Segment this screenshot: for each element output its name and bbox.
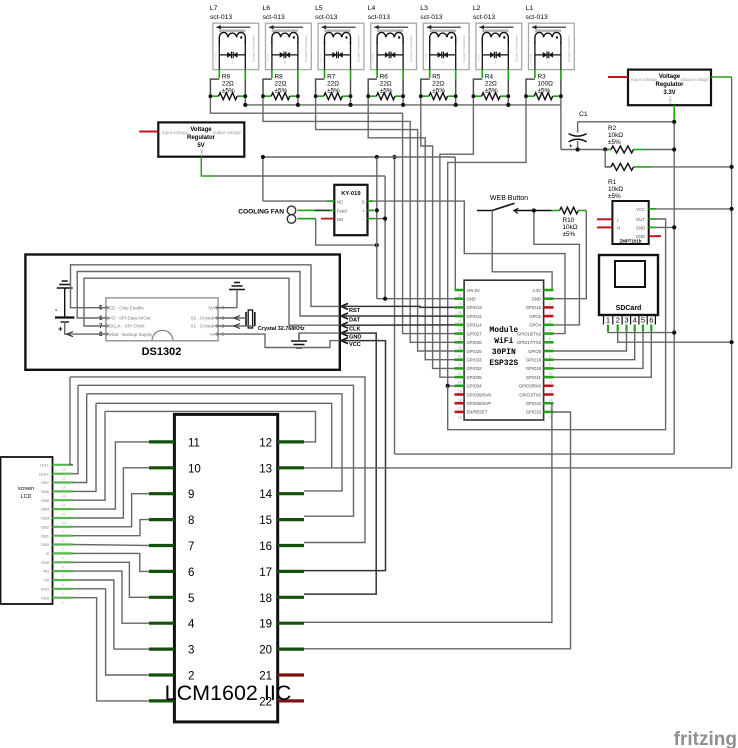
pin DAT [341, 313, 348, 319]
svg-text:Current Transformer: Current Transformer [567, 35, 571, 62]
wire ZMPT L red [597, 218, 612, 220]
pin LCM 9 [149, 492, 174, 495]
svg-text:Regulator: Regulator [187, 135, 216, 141]
svg-text:17: 17 [259, 567, 272, 579]
pin LCM 4 [149, 622, 174, 625]
pin LCM 8 [149, 518, 174, 521]
svg-text:GPIO32: GPIO32 [467, 366, 483, 371]
voltage regulator 3.3V [628, 70, 711, 106]
svg-text:10: 10 [188, 463, 201, 475]
wire node under R7 right [350, 96, 352, 105]
wire CT L7 pin1 to R node [218, 70, 220, 78]
svg-text:22Ω: 22Ω [485, 81, 497, 88]
pin SD 4 [634, 325, 636, 332]
RTC module DS1302 outer box [25, 255, 339, 370]
svg-text:sct-013: sct-013 [213, 53, 217, 62]
svg-text:DB3: DB3 [41, 516, 50, 521]
svg-text:2: 2 [616, 316, 620, 325]
resistor R1 10k [605, 163, 731, 200]
svg-text:R6: R6 [380, 74, 389, 81]
resistor R4 22Ω [473, 74, 508, 100]
pin LCM 5 [149, 596, 174, 599]
node bias-C1 [576, 147, 580, 151]
voltage regulator 5V [158, 122, 244, 156]
pin right GPO2 [544, 315, 554, 318]
svg-text:30PIN: 30PIN [492, 348, 516, 357]
svg-text:7: 7 [549, 346, 551, 350]
svg-text:DB5: DB5 [41, 498, 50, 503]
svg-text:22: 22 [458, 363, 462, 367]
svg-text:5: 5 [641, 316, 645, 325]
svg-text:10kΩ: 10kΩ [563, 224, 578, 231]
svg-text:L1: L1 [526, 5, 534, 12]
svg-text:±5%: ±5% [563, 231, 576, 238]
svg-text:22Ω: 22Ω [275, 81, 287, 88]
wire R9 signal to ESP32 [210, 96, 454, 333]
ground symbol bottom right [291, 341, 307, 348]
wire CT L1 pin2 to R node [560, 70, 562, 80]
pin right GPIO5 [544, 350, 554, 353]
svg-text:2: 2 [547, 61, 549, 65]
svg-text:OUT: OUT [636, 217, 645, 222]
wire LED+ to LCM pin15 [78, 385, 354, 516]
capacitor C1 [569, 111, 588, 150]
svg-text:GPIO39/SVN: GPIO39/SVN [467, 392, 492, 397]
node junction [375, 155, 379, 159]
pin LCM 16 [278, 544, 304, 547]
svg-text:DB7: DB7 [41, 480, 50, 485]
svg-text:13: 13 [549, 398, 553, 402]
svg-text:COOLING FAN: COOLING FAN [238, 208, 284, 215]
battery [55, 307, 75, 334]
svg-text:Current Transformer: Current Transformer [304, 35, 308, 62]
wire node under R4 right [507, 96, 509, 105]
svg-text:Crystal 32.768KHz: Crystal 32.768KHz [258, 326, 305, 332]
wire KY - to GND rail [368, 218, 375, 220]
pin left GPIO12 [455, 315, 465, 318]
svg-text:R/W: R/W [41, 560, 49, 565]
svg-text:NC: NC [337, 199, 343, 204]
svg-text:sct-013: sct-013 [371, 53, 375, 62]
svg-text:output voltage: output voltage [680, 77, 709, 82]
svg-text:28: 28 [458, 311, 462, 315]
svg-text:11: 11 [188, 437, 200, 449]
wire KY + rail [368, 209, 375, 211]
pin left GPIO14 [455, 323, 465, 326]
wire LCD VSS to LCM pin1 [73, 598, 149, 701]
svg-text:fritzing: fritzing [674, 729, 737, 748]
pin left GPIO27 [455, 332, 465, 335]
wire 5V output rail [201, 157, 213, 176]
svg-text:25: 25 [458, 337, 462, 341]
wire gnd symbol to GND arrow [299, 333, 340, 341]
wire CT L4 pin1 to R node [376, 70, 378, 78]
svg-text:sct-013: sct-013 [526, 14, 549, 21]
svg-text:RS: RS [43, 569, 49, 574]
svg-text:18: 18 [458, 398, 462, 402]
svg-text:3: 3 [222, 316, 225, 322]
node bus-R4 [506, 103, 510, 107]
svg-text:LED-: LED- [40, 462, 50, 467]
pin LCM 19 [278, 622, 304, 625]
wire CT L4 pin2 to R node [402, 70, 404, 80]
svg-text:11: 11 [62, 512, 65, 516]
SDCard module [599, 255, 658, 315]
svg-text:GPIO12: GPIO12 [467, 314, 483, 319]
node R8 left [261, 94, 265, 98]
voltage sensor ZMPT101b [612, 201, 648, 244]
svg-text:input voltage: input voltage [631, 77, 657, 82]
svg-text:GPIO34: GPIO34 [467, 384, 483, 389]
svg-text:13: 13 [259, 463, 272, 475]
pin left GPIO36/SVP [455, 402, 465, 405]
svg-text:21: 21 [458, 372, 462, 376]
svg-text:DB0: DB0 [41, 542, 50, 547]
svg-text:GPIO21: GPIO21 [526, 375, 542, 380]
svg-text:22Ω: 22Ω [327, 81, 339, 88]
wire CLK to GPIO14 [341, 324, 455, 326]
svg-text:VIN 5V: VIN 5V [467, 288, 480, 293]
wire CT L3 pin2 to R node [455, 70, 457, 80]
pin LCM 20 [278, 647, 304, 650]
pin SD 2 [617, 325, 619, 332]
svg-text:9: 9 [549, 363, 551, 367]
wire 0V to ground [218, 307, 237, 309]
svg-text:GPIO15: GPIO15 [526, 305, 542, 310]
wire VCC arrow to LCM pin17 [304, 341, 386, 571]
wire DAT to GPIO12 [341, 315, 455, 317]
wire node under R8 right [297, 96, 299, 105]
svg-text:23: 23 [458, 355, 462, 359]
pin right GPIO16/TX2 [544, 332, 554, 335]
wire R5 signal to ESP32 [421, 96, 455, 368]
pin left GPIO32 [455, 367, 465, 370]
wire button left to 3.3V pin [492, 211, 553, 291]
node bus-R5 [454, 103, 458, 107]
svg-text:±5%: ±5% [608, 193, 621, 200]
wire X1 to crystal [218, 325, 255, 327]
svg-text:12: 12 [259, 437, 272, 449]
svg-text:10kΩ: 10kΩ [608, 132, 623, 139]
svg-text:GPIO26: GPIO26 [467, 340, 483, 345]
svg-text:sct-013: sct-013 [319, 53, 323, 62]
transformer L2 sct-013 [473, 5, 522, 70]
svg-text:+: + [569, 144, 573, 150]
pin left EN/RESET [455, 411, 465, 414]
node R8 right [296, 94, 300, 98]
svg-text:X2 - Crystal: X2 - Crystal [190, 316, 214, 321]
wire 3.3V input (red) [608, 76, 628, 78]
DS1302 IC box [106, 298, 218, 341]
svg-text:VCC: VCC [349, 342, 361, 348]
pin right GND [544, 297, 554, 300]
svg-text:29: 29 [458, 302, 462, 306]
wire bus to C1/R2 bias node [560, 96, 562, 149]
pin LCM 1 [149, 699, 174, 702]
pin LCM 14 [278, 492, 304, 495]
svg-text:L3: L3 [420, 5, 428, 12]
svg-text:sct-013: sct-013 [473, 14, 496, 21]
pin SD 1 [607, 325, 609, 332]
wire CT L2 pin2 to R node [507, 70, 509, 80]
svg-text:5: 5 [549, 328, 551, 332]
resistor R5 22Ω [421, 74, 456, 100]
svg-text:10kΩ: 10kΩ [608, 186, 623, 193]
pin left GPIO13 [455, 306, 465, 309]
wire LCD DB5 riser [73, 411, 105, 500]
wire node under R6 right [402, 96, 404, 105]
svg-text:sct-013: sct-013 [476, 53, 480, 62]
wire common CT bus [244, 96, 246, 105]
wire relay rail to VIN [454, 157, 457, 290]
resistor R9 22Ω [210, 74, 245, 100]
svg-text:2: 2 [494, 61, 496, 65]
wire R7 signal to ESP32 [316, 96, 455, 351]
svg-text:18: 18 [259, 593, 272, 605]
svg-text:22Ω: 22Ω [222, 81, 234, 88]
wire X2 to crystal [218, 317, 246, 319]
svg-text:GPIO1/TX0: GPIO1/TX0 [519, 392, 541, 397]
svg-text:GPIO25: GPIO25 [467, 349, 483, 354]
svg-text:GPIO18: GPIO18 [526, 358, 542, 363]
svg-text:5: 5 [188, 593, 194, 605]
node rail-bias [392, 155, 396, 159]
svg-text:12: 12 [549, 389, 553, 393]
DS1302 IC pin arrows [106, 306, 110, 310]
node GPIO34 [446, 384, 450, 388]
pin left VIN 5V [455, 289, 465, 292]
node railV1-GND [672, 225, 676, 229]
wire DB5 to LCM pin12 [105, 411, 316, 442]
svg-text:1: 1 [549, 294, 551, 298]
wire LCD RS to LCM pin4 [73, 571, 149, 623]
svg-text:22Ω: 22Ω [432, 81, 444, 88]
svg-text:26: 26 [458, 328, 462, 332]
svg-text:Current Transformer: Current Transformer [357, 35, 361, 62]
node bus-R8 [296, 103, 300, 107]
node bus-R9 [243, 103, 247, 107]
wire ZMPT GND [649, 226, 656, 228]
svg-text:C1: C1 [579, 111, 588, 118]
svg-text:3: 3 [549, 311, 551, 315]
svg-text:GPIO35: GPIO35 [467, 375, 483, 380]
svg-text:S: S [362, 199, 365, 204]
pushbutton WEB Button [477, 195, 534, 213]
resistor R2 10k [605, 125, 674, 153]
svg-text:DB4: DB4 [41, 507, 50, 512]
svg-text:19: 19 [458, 389, 462, 393]
svg-text:input voltage: input voltage [162, 130, 188, 135]
svg-text:100Ω: 100Ω [538, 81, 554, 88]
svg-text:GPIO13: GPIO13 [467, 305, 483, 310]
node R2-left [603, 147, 607, 151]
svg-text:4: 4 [549, 320, 551, 324]
pin left GPIO34 [455, 384, 465, 387]
svg-text:sct-013: sct-013 [368, 14, 391, 21]
wire fan bottom path [298, 218, 316, 220]
svg-text:R3: R3 [538, 74, 547, 81]
svg-text:24: 24 [458, 346, 462, 350]
pin right GPIO15 [544, 306, 554, 309]
wire CT L1 pin1 to R node [534, 70, 536, 78]
pin GND [341, 330, 348, 336]
wire button mid to GPO4 [534, 211, 580, 325]
microcontroller module ESP32S 30PIN [464, 280, 543, 420]
wire SD1 to rail V1 [608, 332, 674, 333]
node R3 left [524, 94, 528, 98]
node junction [672, 331, 676, 335]
cooling fan connector [238, 206, 296, 223]
svg-text:VDD: VDD [41, 586, 50, 591]
wire LED- to LCM pin16 [70, 377, 365, 543]
svg-text:1: 1 [222, 332, 225, 338]
svg-text:+: + [58, 325, 63, 334]
wire node under R9 right [244, 96, 246, 105]
svg-text:sct-013: sct-013 [315, 14, 338, 21]
wire 3.3V output to right rail [711, 76, 732, 78]
node R9 left [209, 94, 213, 98]
svg-text:X1 - Crystal: X1 - Crystal [190, 324, 214, 329]
node R5 left [419, 94, 423, 98]
svg-text:16: 16 [62, 468, 66, 472]
node bus-R6 [401, 103, 405, 107]
svg-text:DB1: DB1 [41, 533, 50, 538]
transformer L3 sct-013 [420, 5, 469, 70]
pin LCM 6 [149, 570, 174, 573]
ESP32 center label [489, 326, 518, 368]
svg-text:output voltage: output voltage [213, 130, 242, 135]
pin right GPO4 [544, 323, 554, 326]
svg-text:NO: NO [337, 217, 344, 222]
svg-text:11: 11 [549, 381, 553, 385]
relay module KY-019 [334, 185, 367, 235]
wire ZMPT GND2 red stub [649, 235, 661, 237]
wire LCD DB3 to LCM pin10 [73, 468, 149, 518]
node GND-row [383, 297, 387, 301]
svg-text:3: 3 [624, 316, 628, 325]
node rail-VCC [730, 207, 734, 211]
node button-R10 [532, 208, 536, 212]
wire LCD DB7 riser [73, 394, 87, 483]
svg-text:screen: screen [18, 486, 34, 492]
wire ZMPT N red [597, 226, 612, 228]
svg-text:L4: L4 [368, 5, 376, 12]
svg-text:13: 13 [62, 494, 66, 498]
pin RST [341, 303, 348, 309]
wire KY Feed (fan top) [298, 209, 335, 211]
svg-text:sct-013: sct-013 [424, 53, 428, 62]
svg-text:GPIO19: GPIO19 [526, 366, 542, 371]
wire R6 signal to ESP32 [368, 96, 454, 360]
pin LCM 11 [149, 440, 174, 443]
pin LCM 22 [278, 699, 304, 702]
svg-text:±5%: ±5% [608, 139, 621, 146]
svg-text:3.3V: 3.3V [663, 90, 675, 96]
LCD driver LCM1602 IIC [174, 414, 277, 722]
svg-text:R9: R9 [222, 74, 231, 81]
pin LCM 7 [149, 544, 174, 547]
svg-text:9: 9 [188, 489, 194, 501]
svg-text:4: 4 [188, 619, 195, 631]
pin LCM 12 [278, 440, 304, 443]
svg-text:GND: GND [349, 335, 361, 341]
svg-text:10: 10 [62, 521, 66, 525]
ground symbol near 0V [229, 283, 245, 290]
svg-text:6: 6 [649, 316, 653, 325]
wire LCM pin13 long to rail V2 [304, 467, 732, 469]
svg-text:R10: R10 [563, 217, 575, 224]
pin right GPIO18 [544, 358, 554, 361]
svg-text:SCLK - SPI Clock: SCLK - SPI Clock [109, 324, 145, 329]
svg-text:+v: +v [209, 332, 215, 337]
resistor R6 22Ω [368, 74, 403, 100]
wire SD3 to GPIO5 [554, 332, 627, 352]
svg-text:16: 16 [259, 541, 272, 553]
svg-text:GPIO16/TX2: GPIO16/TX2 [517, 331, 542, 336]
svg-text:7: 7 [188, 541, 194, 553]
svg-text:GPIO33: GPIO33 [467, 358, 483, 363]
crystal 32.768KHz [246, 310, 305, 332]
svg-text:2: 2 [389, 61, 391, 65]
wire I/O loop to DAT [77, 272, 340, 319]
wire CT L3 pin1 to R node [429, 70, 431, 78]
svg-text:8: 8 [549, 355, 551, 359]
svg-text:R8: R8 [275, 74, 284, 81]
node junction [261, 155, 265, 159]
pin left GND [455, 297, 465, 300]
svg-text:Module: Module [489, 326, 518, 335]
resistor R3 100Ω [526, 74, 561, 100]
pin LCM 2 [149, 673, 174, 676]
transformer L6 sct-013 [263, 5, 312, 70]
wire 3.3V bottom pin rail V1 [673, 105, 675, 122]
svg-text:sct-013: sct-013 [263, 14, 286, 21]
pin left GPIO25 [455, 350, 465, 353]
svg-text:GND: GND [636, 225, 645, 230]
wire 5V input (red) [139, 131, 158, 133]
svg-text:14: 14 [259, 489, 272, 501]
wire KY S to ESP32 [368, 200, 373, 202]
svg-text:2: 2 [442, 61, 444, 65]
svg-text:ZMPT101b: ZMPT101b [620, 239, 642, 244]
svg-text:Current Transformer: Current Transformer [409, 35, 413, 62]
wire SCLK loop to CLK [84, 278, 340, 326]
wire SD2 to rail V2 [618, 332, 732, 343]
wire LCD DB2 to LCM pin9 [73, 494, 149, 527]
pin SD 6 [650, 325, 652, 332]
svg-text:GND: GND [669, 96, 673, 104]
svg-text:GPIO5: GPIO5 [528, 349, 541, 354]
svg-text:N: N [617, 225, 620, 230]
node KY-minus [383, 217, 387, 221]
svg-text:SDCard: SDCard [616, 305, 642, 312]
svg-text:sct-013: sct-013 [210, 14, 233, 21]
pin right 3.3V [544, 289, 554, 292]
wire R8 signal to ESP32 [263, 96, 455, 342]
wire CT L6 pin2 to R node [297, 70, 299, 80]
svg-text:R5: R5 [432, 74, 441, 81]
svg-text:GND: GND [200, 148, 204, 156]
pin left GPIO26 [455, 341, 465, 344]
pin LCM 21 [278, 673, 304, 676]
svg-text:KY-019: KY-019 [341, 191, 361, 197]
pin LCM 17 [278, 570, 304, 573]
svg-text:GPIO27: GPIO27 [467, 331, 483, 336]
svg-text:20: 20 [259, 645, 272, 657]
node R3 right [559, 94, 563, 98]
wire SD6 to GPIO21 [554, 332, 652, 378]
svg-text:VSS: VSS [41, 595, 49, 600]
